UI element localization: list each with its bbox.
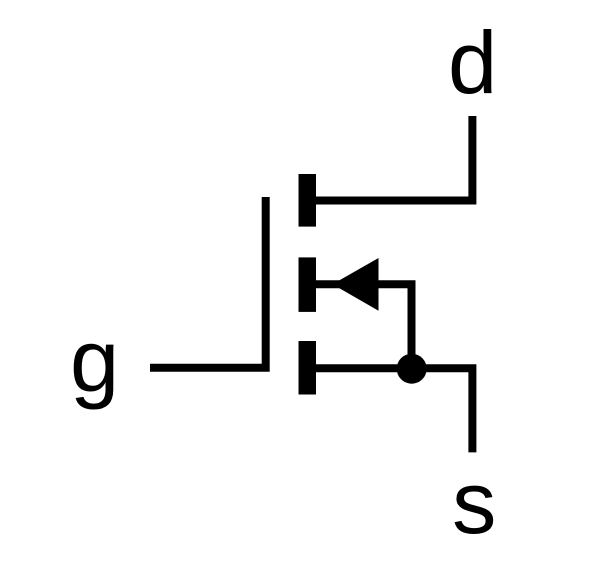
svg-text:s: s: [452, 453, 496, 552]
svg-text:g: g: [70, 311, 119, 410]
svg-text:d: d: [448, 13, 497, 112]
